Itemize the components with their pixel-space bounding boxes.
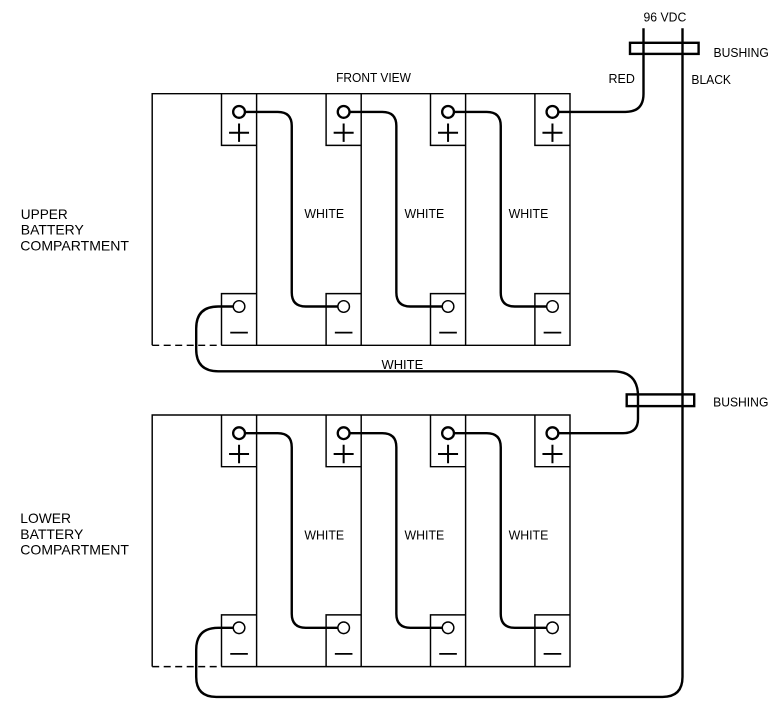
white jumper wire BL3+ to BL4- <box>454 433 547 628</box>
svg-text:UPPER: UPPER <box>21 206 68 222</box>
battery BL1 minus symbol <box>230 653 248 655</box>
svg-text:COMPARTMENT: COMPARTMENT <box>20 238 129 254</box>
battery BU2 negative terminal box <box>326 294 361 346</box>
battery BU3 divider <box>465 94 467 346</box>
white jumper wire BL1+ to BL2- <box>245 433 338 628</box>
battery BL1 negative terminal box <box>222 615 257 667</box>
battery BL3 plus symbol <box>438 445 458 463</box>
battery BU2 negative terminal circle <box>338 301 350 313</box>
battery BL2 minus symbol <box>335 653 353 655</box>
battery BL3 positive terminal box <box>431 415 466 467</box>
battery BU2 positive terminal circle <box>338 106 350 118</box>
svg-text:RED: RED <box>609 72 635 86</box>
battery BL3 negative terminal circle <box>442 622 454 634</box>
svg-text:WHITE: WHITE <box>405 528 445 542</box>
battery BL1 positive terminal circle <box>233 427 245 439</box>
battery BL3 negative terminal box <box>431 615 466 667</box>
black return wire from 96 VDC feed down and around to lower BL1- <box>196 28 682 697</box>
lower battery compartment outline <box>152 415 570 667</box>
battery BU4 minus symbol <box>544 332 562 334</box>
battery BU1 divider <box>256 94 258 346</box>
bushing at top (96 VDC cable entry) <box>630 43 699 54</box>
white jumper wire BU3+ to BU4- <box>454 112 547 307</box>
bushing between compartments <box>627 394 695 406</box>
svg-text:BUSHING: BUSHING <box>713 395 768 409</box>
svg-text:COMPARTMENT: COMPARTMENT <box>20 542 129 558</box>
battery BL4 minus symbol <box>544 653 562 655</box>
upper battery compartment outline <box>152 94 570 346</box>
battery BL1 positive terminal box <box>222 415 257 467</box>
battery BU3 plus symbol <box>438 124 458 142</box>
battery BL3 minus symbol <box>439 653 457 655</box>
battery BL2 positive terminal circle <box>338 427 350 439</box>
svg-text:BUSHING: BUSHING <box>714 46 769 60</box>
battery BU1 negative terminal box <box>222 294 257 346</box>
svg-text:96 VDC: 96 VDC <box>644 10 687 24</box>
battery BL2 positive terminal box <box>326 415 361 467</box>
svg-text:WHITE: WHITE <box>509 528 549 542</box>
battery BU4 plus symbol <box>542 124 562 142</box>
battery BL4 negative terminal circle <box>547 622 559 634</box>
svg-text:WHITE: WHITE <box>304 207 344 221</box>
battery BU3 negative terminal circle <box>442 301 454 313</box>
battery BU3 positive terminal circle <box>442 106 454 118</box>
battery BU4 positive terminal box <box>535 94 570 146</box>
battery BL4 negative terminal box <box>535 615 570 667</box>
battery BL2 divider <box>360 415 362 667</box>
battery BU1 minus symbol <box>230 332 248 334</box>
battery BU1 positive terminal box <box>222 94 257 146</box>
battery BU2 minus symbol <box>335 332 353 334</box>
upper compartment dashed bottom-left edge <box>152 344 221 346</box>
battery BL4 plus symbol <box>542 445 562 463</box>
red wire from battery BU4 positive to 96 VDC feed <box>558 28 643 112</box>
lower compartment dashed bottom-left edge <box>152 666 221 668</box>
battery BL1 divider <box>256 415 258 667</box>
battery BU3 negative terminal box <box>431 294 466 346</box>
battery BL2 negative terminal box <box>326 615 361 667</box>
battery BL2 negative terminal circle <box>338 622 350 634</box>
battery BU4 negative terminal circle <box>547 301 559 313</box>
white jumper wire BU2+ to BU3- <box>350 112 443 307</box>
battery BU1 plus symbol <box>229 124 249 142</box>
battery BU1 negative terminal circle <box>233 301 245 313</box>
battery BU3 minus symbol <box>439 332 457 334</box>
battery BU2 plus symbol <box>334 124 354 142</box>
battery BU2 divider <box>360 94 362 346</box>
battery BU4 positive terminal circle <box>547 106 559 118</box>
svg-text:WHITE: WHITE <box>509 207 549 221</box>
battery BL1 plus symbol <box>229 445 249 463</box>
svg-text:WHITE: WHITE <box>382 358 424 372</box>
battery BU3 positive terminal box <box>431 94 466 146</box>
svg-text:WHITE: WHITE <box>405 207 445 221</box>
battery BL3 divider <box>465 415 467 667</box>
battery BU2 positive terminal box <box>326 94 361 146</box>
battery BU1 positive terminal circle <box>233 106 245 118</box>
svg-text:BLACK: BLACK <box>691 73 731 87</box>
svg-text:BATTERY: BATTERY <box>20 526 83 542</box>
long white interconnect wire upper BU1- to lower BL4+ <box>196 307 638 434</box>
svg-text:BATTERY: BATTERY <box>21 222 84 238</box>
svg-text:WHITE: WHITE <box>304 528 344 542</box>
battery BL4 positive terminal circle <box>547 427 559 439</box>
battery BL2 plus symbol <box>334 445 354 463</box>
battery BL3 positive terminal circle <box>442 427 454 439</box>
svg-text:LOWER: LOWER <box>20 510 71 526</box>
svg-text:FRONT VIEW: FRONT VIEW <box>336 71 411 85</box>
white jumper wire BU1+ to BU2- <box>245 112 338 307</box>
battery BL1 negative terminal circle <box>233 622 245 634</box>
battery BU4 negative terminal box <box>535 294 570 346</box>
white jumper wire BL2+ to BL3- <box>350 433 443 628</box>
battery BL4 positive terminal box <box>535 415 570 467</box>
